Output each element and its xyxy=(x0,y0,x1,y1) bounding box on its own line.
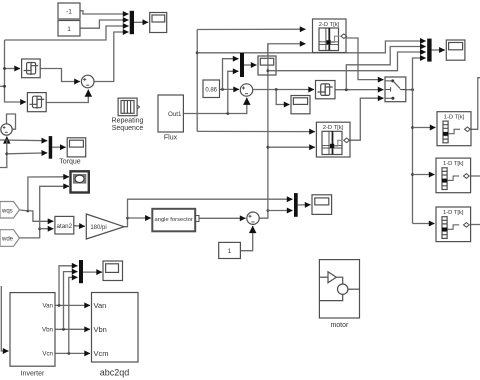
svg-text:Repeating: Repeating xyxy=(112,118,144,125)
wire sum A3 net to mux M5 in3 xyxy=(268,52,426,71)
2-D table T2 xyxy=(316,122,350,157)
scope S5 xyxy=(446,40,465,60)
wire Van up to mux M6 in1 xyxy=(59,266,78,306)
wire relay R1 to sum A1 xyxy=(40,69,80,82)
junction wde net xyxy=(38,227,41,230)
junction sum A3 net angle branch xyxy=(267,69,270,72)
from tag wqs xyxy=(0,202,20,219)
2-D table T1 xyxy=(313,19,347,53)
svg-text:Vbn: Vbn xyxy=(94,325,107,334)
motor subsystem xyxy=(319,260,359,329)
wire left edge into inverter xyxy=(1,286,8,351)
svg-text:1-D T[k]: 1-D T[k] xyxy=(444,115,465,121)
wire sum A2 net down to scope S2 xyxy=(276,90,289,105)
wire mux M3 to scope S3 xyxy=(244,64,257,66)
scope S4 xyxy=(312,195,332,215)
junction Van xyxy=(58,304,61,307)
scope S3 xyxy=(258,56,276,75)
relay R3 xyxy=(316,81,336,99)
junction net N xyxy=(196,51,199,54)
wire wqs to junction xyxy=(20,209,28,212)
wire Vbn up to mux M6 in2 xyxy=(64,272,78,330)
wire torque net to mux M2 in2 xyxy=(7,152,47,155)
mux M3 xyxy=(240,53,244,77)
junction 0.86 net xyxy=(221,88,224,91)
wire mux M5 to scope S5 xyxy=(432,49,445,51)
wire sum A1 to mux M1 in4 xyxy=(94,32,129,82)
junction left net stub xyxy=(3,85,6,88)
mux M1 xyxy=(130,11,134,34)
wire mux M4 to scope S4 xyxy=(298,204,311,206)
overlay wires drawn above blocks xyxy=(267,44,426,75)
junction flux net xyxy=(226,112,229,115)
wire sum A3 net vertical over scope S3 xyxy=(267,44,269,75)
mystery net corner vertical xyxy=(196,30,198,132)
wire sum A3 net to 2-D table T2 in2 xyxy=(268,146,315,148)
from tag wde xyxy=(0,230,20,247)
sum A0 (left edge) xyxy=(1,124,12,135)
junction switch net 1D1 xyxy=(411,126,414,129)
wire const1b to sum A3 bottom xyxy=(240,226,252,251)
wire net N to 2-D table T1 in1 xyxy=(197,28,305,30)
wire wqs net up to XY graph in1 xyxy=(28,177,69,211)
wire inverter Van to abc2qd xyxy=(55,304,90,306)
svg-text:abc2qd: abc2qd xyxy=(100,368,130,378)
wire const 0.86 to sum A2 xyxy=(220,88,240,90)
wire mux M1 to scope S1 xyxy=(134,21,148,23)
relay R1 xyxy=(22,59,41,78)
wire gain G1 out xyxy=(124,218,127,227)
svg-text:Sequence: Sequence xyxy=(112,125,144,132)
wire sum A3 out xyxy=(259,211,268,219)
mux M6 xyxy=(79,260,83,283)
wire Vcn up to mux M6 in3 xyxy=(69,277,78,353)
inverter subsystem xyxy=(10,293,55,378)
wire sum A3 net to mux M4 in2 xyxy=(268,210,293,212)
svg-text:2-D T[k]: 2-D T[k] xyxy=(323,125,344,131)
repeating sequence xyxy=(112,98,144,132)
wire inverter Vcn to abc2qd xyxy=(55,352,90,354)
wire 1-D table L3 out xyxy=(471,224,480,226)
wire switch net up to mux M5 in4 xyxy=(413,58,426,90)
wire wqs net to atan2 in1 xyxy=(28,211,54,221)
wire switch net to 1-D table L2 xyxy=(413,174,435,176)
wire net N to mux M5 in1 xyxy=(197,41,426,53)
junction sum A3 net 1 xyxy=(267,209,270,212)
sum A1 xyxy=(81,75,94,88)
svg-text:2-D T[k]: 2-D T[k] xyxy=(319,22,340,28)
wire relay R3 out to switch in2 xyxy=(335,89,384,91)
angle forsector xyxy=(152,209,199,232)
wire sum A2 to relay R3 xyxy=(253,89,315,91)
svg-text:0.86: 0.86 xyxy=(205,87,217,93)
junction sum A2 net xyxy=(275,88,278,91)
svg-text:motor: motor xyxy=(330,322,349,329)
svg-text:Flux: Flux xyxy=(164,135,178,142)
1-D table L1 xyxy=(437,112,471,146)
svg-text:Van: Van xyxy=(42,303,53,310)
junction wqs net xyxy=(27,210,30,213)
wire flux out xyxy=(183,98,246,114)
wire net N to 2-D table T2 in1 xyxy=(197,130,315,132)
wire mux M6 to scope S6 xyxy=(83,271,102,273)
wire const-1 to mux M1 in1 xyxy=(80,11,129,14)
wire switch net to 1-D table L3 xyxy=(413,223,435,225)
wire angle forsector to sum A3 xyxy=(199,217,246,219)
wire torque net horizontal xyxy=(0,139,47,142)
relay R2 xyxy=(27,93,46,112)
wire left net to relay R1 xyxy=(5,68,21,70)
XY graph xyxy=(71,171,89,192)
wire switch net down vertical xyxy=(412,90,414,224)
svg-text:angle forsector: angle forsector xyxy=(155,217,193,223)
gain 180/pi xyxy=(86,214,124,239)
scope S2 xyxy=(291,96,310,114)
constant 1 (bottom) xyxy=(219,242,241,258)
wire relay R2 to sum A1 bottom xyxy=(46,90,88,103)
wire 1-D table L1 out xyxy=(471,78,480,130)
svg-text:wqs: wqs xyxy=(1,209,13,215)
abc2qd subsystem xyxy=(92,293,139,378)
wire relay R3 net up to mux M5 in2 xyxy=(346,47,425,90)
junction Vcn xyxy=(67,352,70,355)
scope Torque xyxy=(59,138,85,166)
wire torque net down branch xyxy=(0,140,7,168)
wire sum A0 feedback loop xyxy=(7,114,16,129)
wire 1-D table L2 out xyxy=(471,175,480,177)
mux M4 xyxy=(294,193,298,217)
wire left net stub exits left xyxy=(0,85,5,87)
svg-text:Vcn: Vcn xyxy=(42,351,53,358)
svg-text:1-D T[k]: 1-D T[k] xyxy=(443,161,464,167)
svg-text:1: 1 xyxy=(228,248,232,255)
wire left net vertical xyxy=(4,40,6,102)
svg-text:Van: Van xyxy=(94,301,107,310)
wire const1a to mux M1 in2 xyxy=(80,20,129,28)
svg-text:-1: -1 xyxy=(66,9,72,16)
flux subsystem xyxy=(158,95,183,142)
wire gain net to angle forsector xyxy=(128,217,151,219)
wire 2-D table T1 out to switch in1 xyxy=(345,38,384,80)
wire 0.86 net up to mux M3 in1 xyxy=(223,59,239,90)
wire left net to relay R2 xyxy=(5,101,26,104)
junction torque net 2 xyxy=(5,152,8,155)
wire gain net up and to mux M4 in1 xyxy=(128,199,293,218)
mux M5 xyxy=(427,39,431,62)
junction Vbn xyxy=(62,328,65,331)
junction gain out xyxy=(126,217,129,220)
1-D table L3 xyxy=(436,207,471,242)
scope S1 xyxy=(150,13,167,33)
switch xyxy=(385,77,406,102)
mux M2 xyxy=(49,136,53,159)
svg-text:1-D T[k]: 1-D T[k] xyxy=(443,210,464,216)
wire flux net up to mux M3 in2 xyxy=(228,71,239,113)
wire mux M2 to scope Torque xyxy=(52,146,65,148)
constant 1 (top) xyxy=(58,21,80,37)
svg-text:180/pi: 180/pi xyxy=(90,225,106,231)
wire inverter Vbn to abc2qd xyxy=(55,328,90,330)
wire torque net up arrow into sum A0 xyxy=(6,137,8,141)
constant 0.86 xyxy=(203,80,220,98)
junction switch net xyxy=(411,88,414,91)
svg-text:Vbn: Vbn xyxy=(42,327,54,334)
svg-text:Inverter: Inverter xyxy=(21,371,45,378)
junction left net relay1 xyxy=(3,67,6,70)
wire left net top to mux M1 in3 xyxy=(5,26,129,40)
wire switch out xyxy=(406,89,413,91)
junction switch net 1D2 xyxy=(411,173,414,176)
junction torque net xyxy=(5,139,8,142)
wire sum A3 net up xyxy=(268,44,306,211)
junction relay R3 net xyxy=(345,88,348,91)
wire wde net up to XY graph in2 xyxy=(40,186,69,228)
wire switch net to 1-D table L1 xyxy=(413,127,436,129)
svg-text:Vcm: Vcm xyxy=(94,349,109,358)
svg-text:Torque: Torque xyxy=(59,159,81,166)
1-D table L2 xyxy=(436,158,471,193)
junction sum A3 net 2 xyxy=(267,146,270,149)
svg-text:atan2: atan2 xyxy=(57,223,73,230)
scope S6 xyxy=(103,261,123,281)
wire wde to junction xyxy=(20,229,40,238)
svg-text:Out1: Out1 xyxy=(168,111,182,118)
wire atan2 to gain G1 xyxy=(74,225,85,228)
wire wde net to atan2 in2 xyxy=(40,228,54,230)
svg-text:1: 1 xyxy=(67,26,71,33)
constant -1 xyxy=(58,3,80,19)
svg-text:wde: wde xyxy=(1,237,14,243)
wire 2-D table T2 out to switch in3 xyxy=(346,98,384,140)
sum A2 xyxy=(240,84,252,96)
atan2 xyxy=(55,216,74,234)
sum A3 xyxy=(247,212,259,224)
